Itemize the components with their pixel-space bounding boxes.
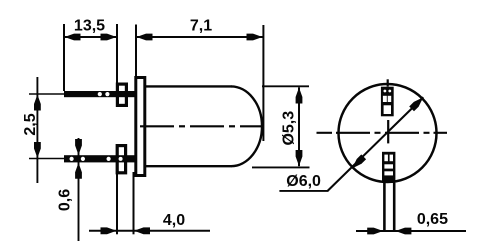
svg-text:0,65: 0,65 bbox=[417, 211, 448, 228]
LED dome bbox=[231, 86, 262, 166]
flange of LED body bbox=[136, 78, 145, 176]
svg-text:7,1: 7,1 bbox=[190, 18, 212, 35]
dimension 2,5 dimension line bbox=[36, 77, 38, 183]
arrowhead 6,0 upper right bbox=[409, 97, 423, 111]
13,5 extension line right bbox=[116, 24, 118, 84]
arrowhead 6,0 lower left bbox=[352, 154, 366, 168]
6,0 label underline bbox=[279, 190, 328, 192]
dimension 13,5 dimension line bbox=[64, 36, 117, 38]
13,5 extension line left bbox=[63, 24, 65, 91]
lead stand-off tab (bottom lead) bbox=[117, 146, 125, 173]
crimp dot bbox=[98, 92, 102, 96]
4,0 extension line left bbox=[116, 174, 118, 234]
2,5 tick top bbox=[29, 93, 64, 95]
arrowhead 0,65 pointing right bbox=[367, 228, 383, 235]
dimension 0,65 dimension line bbox=[356, 230, 466, 232]
arrowhead 4,0 pointing right bbox=[101, 227, 117, 234]
arrowhead 13,5 right bbox=[101, 34, 117, 41]
arrowhead 13,5 left bbox=[65, 34, 81, 41]
front view vertical center line nub bbox=[387, 79, 389, 86]
front view top lead cross-section bbox=[381, 87, 394, 117]
front view circle bbox=[339, 84, 437, 182]
7,1 extension line left bbox=[135, 25, 137, 79]
crimp dot bbox=[119, 157, 123, 161]
7,1 extension line right bbox=[262, 25, 264, 141]
side view center line (dash-dot) bbox=[140, 125, 262, 127]
4,0 extension line right bbox=[133, 172, 135, 234]
arrowhead 2,5 up bbox=[34, 95, 41, 111]
5,3 extension line top bbox=[262, 85, 309, 87]
crimp dot bbox=[70, 157, 74, 161]
crimp dot bbox=[105, 92, 109, 96]
svg-text:Ø6,0: Ø6,0 bbox=[286, 173, 321, 190]
LED body top edge bbox=[144, 85, 232, 87]
svg-text:2,5: 2,5 bbox=[22, 113, 39, 135]
arrowhead 4,0 pointing left bbox=[134, 227, 150, 234]
dimension diameter 5,3 dimension line bbox=[298, 87, 300, 166]
svg-text:4,0: 4,0 bbox=[163, 212, 185, 229]
front view lead right edge going down bbox=[393, 183, 396, 232]
arrowhead 2,5 down bbox=[34, 142, 41, 158]
arrowhead 0,6 up (below lead) bbox=[75, 163, 82, 179]
arrowhead 0,65 pointing left bbox=[395, 228, 411, 235]
dimension 7,1 dimension line bbox=[136, 36, 263, 38]
front view horizontal center line (dash-dot) bbox=[317, 132, 448, 134]
svg-text:0,6: 0,6 bbox=[56, 189, 73, 211]
front view bottom lead cross-section bbox=[382, 152, 395, 183]
5,3 extension line bottom bbox=[252, 166, 310, 168]
front view lead left edge going down bbox=[383, 183, 386, 232]
lead stand-off tab (top lead) bbox=[117, 84, 126, 105]
dimension 4,0 dimension line bbox=[89, 230, 210, 232]
bottom lead wire bbox=[64, 155, 137, 162]
arrowhead 7,1 left bbox=[137, 34, 153, 41]
arrowhead 5,3 up bbox=[296, 88, 303, 104]
dimension 0,6 dimension line bbox=[78, 138, 80, 241]
arrowhead 5,3 down bbox=[296, 150, 303, 166]
LED body bottom edge bbox=[144, 165, 232, 167]
front view vertical center line segment bbox=[387, 120, 389, 143]
arrowhead 0,6 down (above lead) bbox=[75, 139, 82, 155]
crimp dot bbox=[107, 157, 111, 161]
top lead wire bbox=[64, 91, 137, 97]
arrowhead 7,1 right bbox=[247, 34, 263, 41]
svg-text:Ø5,3: Ø5,3 bbox=[280, 111, 297, 146]
dimension diameter 6,0 leader and dimension line bbox=[328, 97, 424, 191]
crimp dot bbox=[81, 157, 85, 161]
svg-text:13,5: 13,5 bbox=[74, 18, 105, 35]
2,5 tick bottom bbox=[29, 158, 64, 160]
